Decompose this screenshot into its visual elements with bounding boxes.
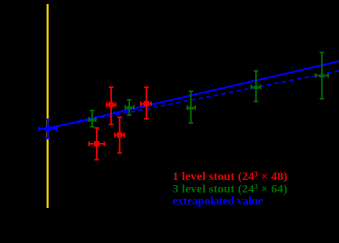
svg-text:extrapolated value: extrapolated value — [173, 194, 264, 208]
